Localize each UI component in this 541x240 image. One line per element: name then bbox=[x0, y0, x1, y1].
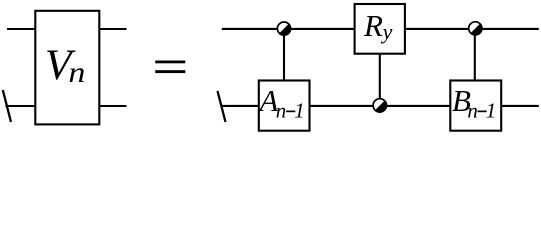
bottom qubit wire segment 2 bbox=[310, 105, 373, 107]
bus slash on bottom-left wire bbox=[3, 90, 11, 122]
svg-text:n: n bbox=[68, 56, 85, 89]
bus slash on bottom wire bbox=[218, 91, 226, 122]
wire bottom-left into V box (bus) bbox=[6, 105, 36, 107]
svg-text:n: n bbox=[467, 98, 478, 122]
top qubit wire segment 4 bbox=[482, 28, 539, 30]
top qubit wire segment 2 bbox=[291, 28, 355, 30]
half-filled control middle bbox=[373, 99, 386, 112]
top qubit wire segment 1 bbox=[222, 28, 277, 30]
gate box Ry bbox=[355, 4, 405, 54]
svg-text:y: y bbox=[381, 19, 393, 44]
wire bottom-right of V box bbox=[99, 105, 126, 107]
svg-text:R: R bbox=[363, 8, 383, 43]
wire top-right of V box bbox=[99, 28, 126, 30]
svg-text:1: 1 bbox=[294, 98, 305, 122]
half-filled control right bbox=[469, 22, 482, 35]
wire top-left into V box bbox=[7, 28, 35, 30]
gate box B_{n-1} bbox=[450, 81, 501, 131]
svg-text:n: n bbox=[276, 98, 287, 122]
vertical connector: right control to B box bbox=[474, 28, 476, 80]
half-filled control left bbox=[277, 22, 290, 35]
equals sign bbox=[155, 61, 185, 64]
bottom qubit wire segment 3 bbox=[387, 105, 451, 107]
top qubit wire segment 3 bbox=[405, 28, 469, 30]
gate box V_n bbox=[35, 11, 99, 125]
bottom qubit wire segment 1 bbox=[221, 105, 259, 107]
gate box A_{n-1} bbox=[259, 81, 310, 131]
vertical connector: Ry box to middle control bbox=[379, 54, 381, 106]
bottom qubit wire segment 4 bbox=[501, 105, 539, 107]
vertical connector: left control to A box bbox=[283, 29, 285, 81]
svg-text:1: 1 bbox=[486, 98, 497, 122]
